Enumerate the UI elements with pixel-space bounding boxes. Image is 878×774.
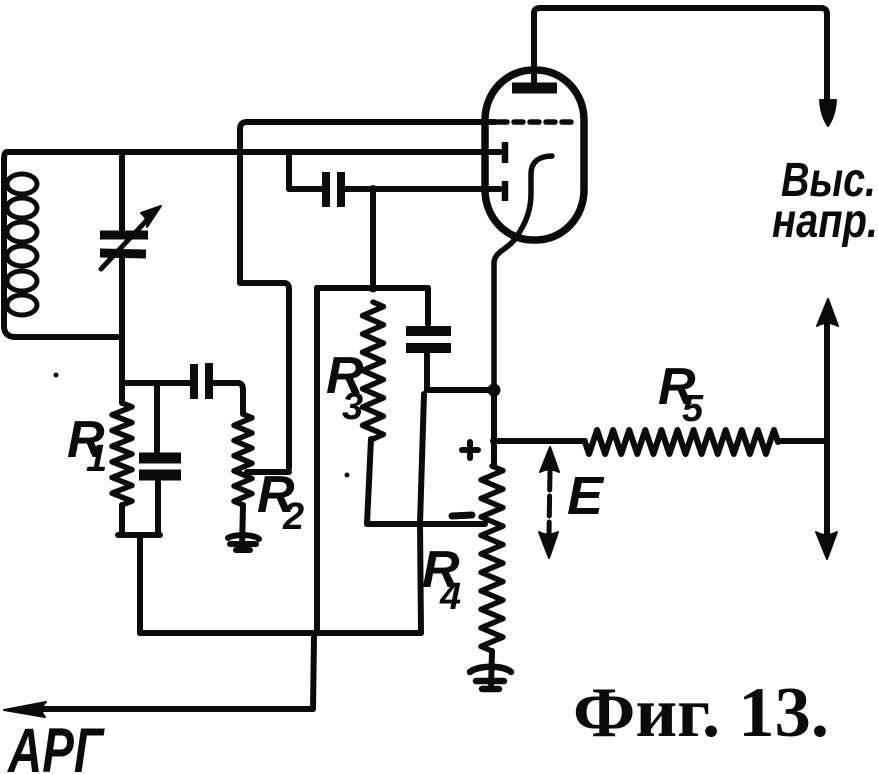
wire vertical x=122 below varcap [119, 258, 125, 403]
wire R4 bottom lead [491, 651, 492, 688]
tube cathode curve [494, 156, 552, 390]
capacitor C4 (to grid3) left plate [322, 172, 330, 207]
svg-text:напр.: напр. [772, 195, 878, 248]
tube U1 envelope [485, 70, 584, 240]
tube screen grid dashed line [498, 119, 577, 125]
tube anode top-cap bar [512, 83, 557, 94]
wire R1 bottom [119, 505, 125, 533]
variable capacitor C1 plate top [100, 231, 148, 240]
minus sign [452, 515, 472, 516]
coil L1 left spine [4, 152, 118, 337]
E measurement arrow down [539, 532, 558, 558]
capacitor C5 bottom plate [406, 343, 451, 353]
capacitor C3 (across R1) top lead [154, 383, 160, 451]
wire screen-grid (wire1) horizontal y=122 [247, 119, 495, 125]
wire capacitor C5 top lead [425, 288, 431, 324]
wire grid (wire2) horizontal y=152 [7, 149, 500, 155]
svg-text:2: 2 [282, 496, 304, 538]
coil loop 6 [7, 295, 37, 315]
wire plus node to R5 [494, 438, 585, 444]
coil loop 2 [7, 198, 37, 218]
resistor R2 [234, 414, 252, 505]
tube grid pin 3 tick [502, 181, 509, 201]
node junction cathode/C5 [488, 384, 501, 397]
wire riser wire2-to-wire3 x=289 [286, 152, 292, 189]
coil loop 5 [7, 271, 37, 291]
wire minus rail y=524 [367, 521, 485, 527]
wire top-cap horizontal to high-voltage arrow [534, 8, 827, 103]
speck [54, 373, 59, 378]
resistor R1 [112, 403, 132, 505]
ground (R4) [470, 667, 511, 689]
wire bottom rail y=633 [140, 630, 421, 636]
wire ARG rail y=709 [30, 706, 313, 712]
wire output double-arrow vertical [824, 318, 830, 540]
svg-text:АРГ: АРГ [6, 716, 104, 774]
coil loop 3 [7, 222, 37, 242]
capacitor C4 right plate [337, 172, 345, 207]
capacitor C3 bottom lead [155, 481, 161, 533]
variable capacitor C1 arrow shaft [101, 219, 148, 269]
wire R3 box left vertical x=317 [314, 288, 320, 629]
capacitor C3 top plate [139, 453, 181, 464]
node junction plus [490, 437, 498, 445]
node junction R3 top [369, 284, 378, 293]
wire R4 top lead [491, 441, 497, 466]
wire R2 tap horizontal [247, 469, 289, 475]
wire cathode node down to plus node [491, 390, 497, 441]
wire3 right segment to tube pin [345, 186, 500, 192]
wire R5 to output line [778, 438, 827, 444]
capacitor C5 top plate [406, 326, 451, 336]
speck [345, 473, 350, 478]
svg-text:4: 4 [439, 576, 461, 618]
wire C5 bottom lead [424, 354, 430, 390]
variable capacitor C1 plate bottom [100, 253, 146, 254]
capacitor C2 right plate [205, 363, 213, 399]
wire R1/C3 bottom bracket [118, 532, 160, 538]
resistor R5 [585, 430, 778, 454]
wire3 left segment [289, 186, 321, 192]
coil loop 1 [7, 174, 37, 194]
wire vertical x=122 top [119, 152, 125, 230]
resistor R4 [481, 466, 503, 651]
arrowhead down (Выс. напр. lead) [820, 100, 836, 126]
variable capacitor C1 arrowhead [141, 206, 161, 227]
coil loop 4 [7, 246, 37, 266]
wire1 left descent x=240 [240, 122, 247, 281]
wire C5 to cathode node [427, 387, 494, 393]
svg-text:5: 5 [682, 388, 704, 430]
arrowhead ARG (left) [4, 702, 46, 717]
arrowhead output up [817, 299, 838, 326]
capacitor C3 bottom plate [139, 470, 181, 481]
wire jog to x=289 [240, 283, 289, 468]
capacitor C2 (grid capacitor) left plate [190, 364, 198, 399]
node junction wire3/R3 [369, 185, 377, 193]
wire R3 box top horizontal [317, 285, 428, 291]
plus sign [462, 442, 478, 458]
E measurement arrow up [540, 447, 559, 472]
svg-text:1: 1 [86, 438, 107, 480]
wire R1 node horizontal y=383 [122, 380, 190, 386]
wire C2 to R2 [213, 383, 243, 414]
svg-text:3: 3 [342, 386, 363, 428]
wire jog down to ARG rail [313, 636, 314, 709]
E measurement arrow shaft [549, 470, 550, 535]
svg-text:Фиг. 13.: Фиг. 13. [573, 674, 829, 752]
ground (R2) [228, 535, 259, 550]
wire vertical x=373 down to R3 box [370, 189, 376, 288]
wire down to bottom rail [137, 535, 143, 633]
wire R2 bottom lead [242, 505, 243, 549]
svg-text:E: E [567, 466, 605, 526]
wire x=421 vertical (grid-leak descent) [420, 394, 424, 633]
tube grid pin 2 tick [502, 142, 509, 163]
wire R3 bottom lead [367, 439, 371, 524]
resistor R3 [363, 302, 384, 439]
arrowhead output down [816, 532, 837, 559]
